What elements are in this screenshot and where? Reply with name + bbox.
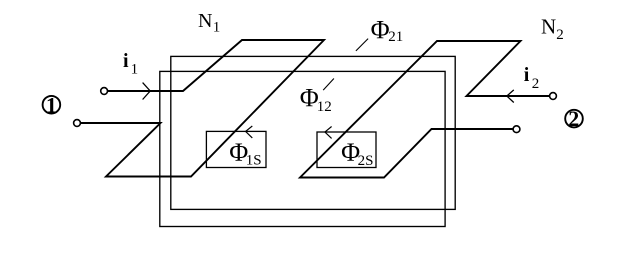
svg-text:2: 2 [532,76,540,92]
svg-text:2S: 2S [358,153,374,169]
arrow on Phi2S loop [325,127,332,139]
svg-text:21: 21 [388,29,403,45]
terminal marker circled 1 [43,96,61,114]
coil N1 winding [81,40,325,177]
svg-text:2: 2 [556,27,564,43]
svg-text:Φ: Φ [371,16,390,45]
terminal circle coil N1 lead 1 [101,88,108,95]
arrow on Phi1S loop [246,126,253,138]
flux loop rectangle Phi21 (upper-right core rectangle) [171,56,455,209]
svg-text:12: 12 [317,99,332,115]
pointer line Phi12 [323,79,334,91]
terminal marker circled 2 [565,110,583,128]
flux loop rectangle Phi12 (lower-left core rectangle) [160,71,445,226]
terminal circle coil N2 lead 2 [513,126,520,133]
svg-text:1S: 1S [246,153,262,169]
svg-text:1: 1 [213,20,221,36]
svg-text:N: N [541,15,556,39]
arrow current i2 [507,90,514,103]
svg-text:2: 2 [568,106,579,131]
svg-text:1: 1 [46,92,57,117]
coil N2 winding [300,41,550,178]
leakage flux loop box Phi2S [317,132,376,168]
terminal circle coil N1 lead 2 [74,120,81,127]
terminal circle coil N2 lead 1 [550,93,557,100]
svg-text:i: i [123,50,129,72]
leakage flux loop box Phi1S [206,131,266,167]
pointer line Phi21 [356,39,368,51]
svg-text:1: 1 [131,61,139,77]
svg-text:i: i [524,64,530,86]
svg-text:N: N [198,10,212,32]
arrow current i1 [143,83,151,100]
